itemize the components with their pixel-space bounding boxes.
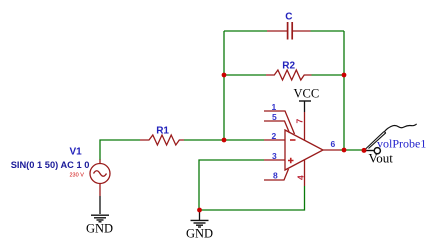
op-amp pin 7 lead (VCC) — [304, 112, 306, 140]
ground symbol (middle) — [191, 210, 209, 227]
VCC power symbol — [299, 101, 311, 112]
wire: R2 row right segment — [312, 74, 345, 76]
svg-text:SIN(0 1 50) AC 1 0: SIN(0 1 50) AC 1 0 — [11, 160, 90, 170]
wire: R1 to inverting node — [184, 139, 224, 141]
op-amp pin 1 lead — [264, 111, 295, 134]
op-amp U1 body — [285, 130, 323, 170]
probe terminal lead — [366, 150, 374, 152]
probe terminal open circle — [374, 148, 380, 154]
probe needle (volProbe1) — [365, 132, 386, 151]
resistor R2 — [266, 70, 312, 80]
ground symbol (left, under V1) — [91, 215, 109, 222]
svg-text:GND: GND — [86, 222, 113, 236]
svg-text:R2: R2 — [282, 61, 295, 72]
wire: R2 row left segment — [224, 74, 266, 76]
junction: probe node — [362, 148, 367, 153]
op-amp pin 4 lead — [304, 160, 306, 186]
junction: node R2/C right — [342, 73, 347, 78]
wire: output row — [340, 149, 364, 151]
svg-text:8: 8 — [273, 171, 278, 181]
svg-text:5: 5 — [272, 112, 277, 122]
svg-text:3: 3 — [272, 151, 277, 161]
wire: right vertical (feedback to output) — [343, 31, 345, 150]
svg-text:230 V: 230 V — [70, 173, 85, 179]
svg-text:2: 2 — [272, 131, 277, 141]
junction: node R2/C left — [222, 73, 227, 78]
op-amp pin 6 output lead — [323, 149, 340, 151]
svg-text:R1: R1 — [156, 126, 169, 137]
svg-text:7: 7 — [295, 119, 305, 124]
svg-text:6: 6 — [331, 139, 336, 149]
wire: inverting node vertical (feedback left) — [223, 31, 225, 140]
wire: top wire right segment — [311, 30, 345, 32]
junction: output node — [342, 148, 347, 153]
op-amp minus symbol — [290, 139, 296, 141]
svg-text:volProbe1: volProbe1 — [377, 137, 426, 151]
svg-text:V1: V1 — [70, 147, 83, 158]
svg-text:GND: GND — [186, 227, 213, 241]
junction: ground node — [197, 208, 202, 213]
wire: top wire left segment to capacitor — [224, 30, 267, 32]
op-amp pin 2 lead — [264, 139, 285, 141]
op-amp plus symbol — [288, 158, 294, 163]
voltage source V1 — [90, 160, 110, 197]
wire: V1 top lead to R1 — [100, 140, 140, 160]
svg-text:4: 4 — [296, 175, 306, 180]
wire: non-inverting pin 3 to ground net — [199, 160, 264, 210]
wire: V1 bottom to ground — [99, 196, 101, 214]
op-amp pin 8 lead — [264, 169, 289, 180]
wire: bottom ground net to pin 4 — [199, 186, 305, 210]
wire: inverting node to op-amp pin 2 — [224, 139, 264, 141]
junction: inverting input node — [222, 138, 227, 143]
svg-text:VCC: VCC — [294, 87, 320, 101]
svg-text:Vout: Vout — [369, 151, 394, 166]
svg-text:1: 1 — [272, 102, 277, 112]
probe cable — [385, 124, 417, 132]
resistor R1 — [140, 135, 184, 145]
capacitor C — [267, 22, 311, 40]
op-amp pin 3 lead — [264, 159, 285, 161]
op-amp pin 5 lead — [264, 121, 290, 133]
svg-text:C: C — [285, 11, 292, 22]
